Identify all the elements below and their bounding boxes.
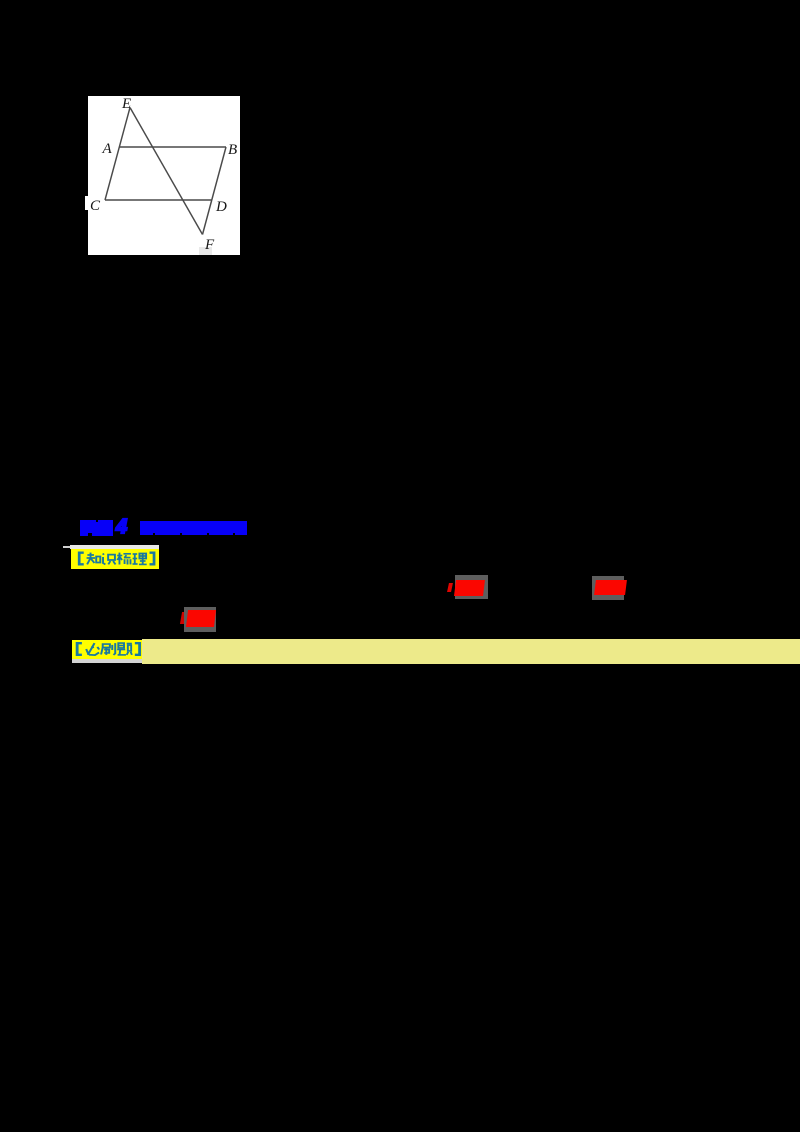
white notch left of C bbox=[85, 196, 88, 210]
blue heading numeral 4 bbox=[116, 516, 127, 539]
svg-text:C: C bbox=[90, 198, 101, 214]
figure box (geometry diagram) bbox=[88, 96, 240, 255]
glyph definitions for teal CJK label shapes bbox=[0, 0, 1, 1]
svg-text:E: E bbox=[121, 96, 131, 112]
red answer blob 3 bbox=[180, 612, 186, 624]
faint bottom shading bbox=[199, 247, 212, 255]
svg-text:B: B bbox=[228, 142, 237, 158]
gray strip under block bbox=[72, 659, 142, 663]
line CD bbox=[105, 199, 212, 201]
line E to F bbox=[130, 108, 203, 235]
line AB bbox=[120, 146, 227, 148]
knowledge label 【知识梳理】 bbox=[71, 549, 159, 569]
bright yellow block 【必刷题】 bbox=[72, 640, 142, 659]
svg-text:D: D bbox=[215, 199, 227, 215]
blue heading phrase bar (solid mass in source) bbox=[140, 521, 247, 535]
red answer blob 2 bbox=[592, 576, 624, 600]
blue heading block "题型" (solid mass in source) bbox=[80, 520, 113, 536]
red answer blob 1 bbox=[447, 583, 453, 592]
svg-text:A: A bbox=[102, 141, 113, 157]
line B to F bbox=[203, 147, 227, 235]
svg-text:F: F bbox=[204, 237, 215, 253]
pale yellow bar bbox=[142, 639, 800, 664]
line E to C bbox=[105, 108, 130, 201]
light strip above knowledge label bbox=[70, 545, 159, 549]
